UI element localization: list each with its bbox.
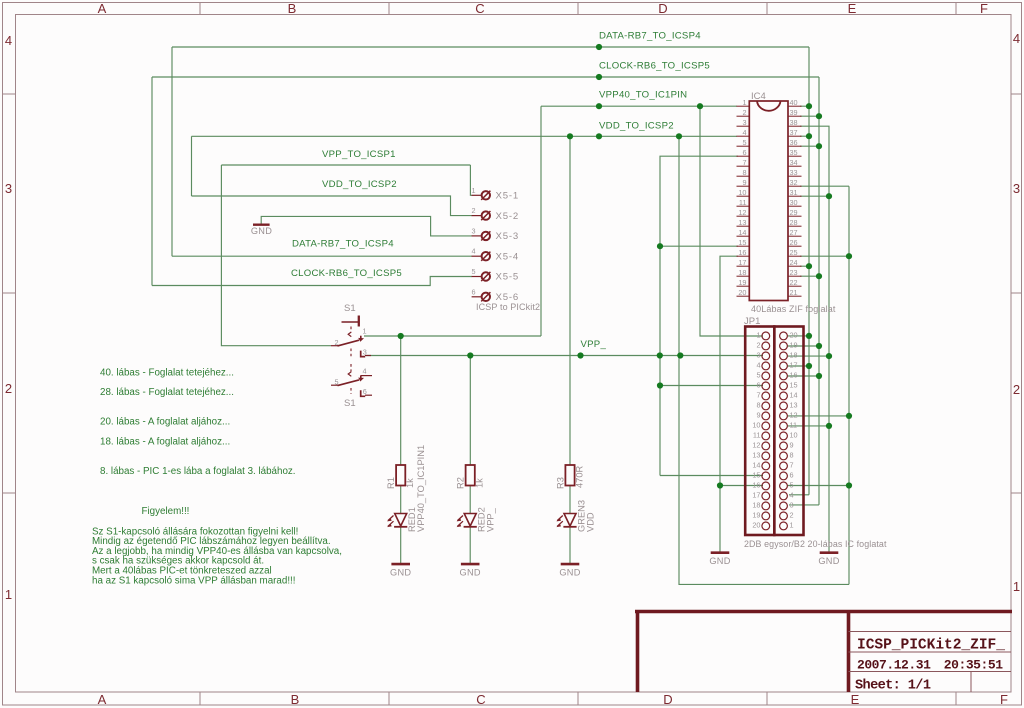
svg-text:3: 3 [742,118,746,127]
svg-text:7: 7 [756,390,760,399]
switch S1 pole1 pin1 tick [360,336,362,340]
svg-text:470R: 470R [575,465,585,488]
wire JP1 pin11 to v829 [787,425,829,427]
svg-text:14: 14 [790,390,798,399]
svg-text:2: 2 [742,108,746,117]
wire IC4 pin32 to v849 [800,185,849,187]
svg-text:14: 14 [738,228,746,237]
svg-text:23: 23 [790,268,798,277]
ground [461,563,480,566]
ground near X5-3 [253,223,270,225]
svg-text:3: 3 [5,181,12,196]
svg-text:7: 7 [742,158,746,167]
wire JP1 pin5 to v849 [787,485,849,487]
svg-text:Sheet: 1/1: Sheet: 1/1 [855,679,931,694]
svg-text:7: 7 [790,460,794,469]
svg-text:4: 4 [471,247,475,256]
svg-text:2: 2 [334,338,338,347]
svg-text:14: 14 [752,460,760,469]
svg-text:17: 17 [738,258,746,267]
pad X5-3 [472,235,481,237]
svg-text:10: 10 [752,420,760,429]
svg-text:35: 35 [790,148,798,157]
svg-text:15: 15 [790,380,798,389]
svg-text:JP1: JP1 [744,316,760,327]
svg-text:40. lábas - Foglalat tetejéhez: 40. lábas - Foglalat tetejéhez... [100,368,234,379]
svg-text:E: E [851,692,860,707]
svg-text:GND: GND [251,226,272,236]
svg-text:18: 18 [752,500,760,509]
svg-text:3: 3 [471,226,475,235]
wire JP1 pin20 stub to v809 [787,335,809,337]
switch S1 coupler chevron pole2 [348,372,351,377]
wire DATA-RB7 right vertical (to IC4 p40/p37/p24, JP1 p20/p17/p4) [808,47,810,495]
svg-text:10: 10 [790,430,798,439]
pad X5-6 [472,296,481,298]
wire CLOCK right vertical (to IC4 p39/p36/p23, JP1 p19/p16/p3) [818,77,820,505]
svg-text:6: 6 [471,287,475,296]
pad X5-4 [472,255,481,257]
svg-text:C: C [476,692,485,707]
LED GREN3 [564,514,576,527]
wire IC4 pin6 corner [660,156,738,475]
svg-text:VPP40_TO_IC1PIN1: VPP40_TO_IC1PIN1 [416,445,426,532]
switch S1 pole1 pin2 stub [331,345,339,347]
svg-text:12: 12 [790,410,798,419]
ground [820,551,839,554]
svg-text:5: 5 [334,378,338,387]
svg-text:34: 34 [790,158,798,167]
switch S1 coupler chevron pole1 [348,332,351,337]
wire net VPP_TO_ICSP1 run [221,164,470,166]
svg-text:4: 4 [5,33,12,48]
svg-text:1: 1 [756,330,760,339]
svg-text:18: 18 [738,268,746,277]
svg-text:15: 15 [738,238,746,247]
wire R1 to LED1 to GND [400,486,402,513]
wire R2 to LED2 to GND [469,486,471,513]
wire IC4 pin40 stub to v809 [800,105,809,107]
wire CLOCK left vertical [151,77,153,286]
svg-text:GND: GND [709,556,730,566]
svg-text:6: 6 [742,148,746,157]
JP1 right column pin circles and numbers 20-1 [780,332,788,340]
svg-text:S1: S1 [344,303,356,314]
svg-text:8. lábas - PIC 1-es lába a fog: 8. lábas - PIC 1-es lába a foglalat 3. l… [100,466,296,477]
svg-text:CLOCK-RB6_TO_ICSP5: CLOCK-RB6_TO_ICSP5 [291,268,402,279]
svg-text:16: 16 [738,248,746,257]
svg-text:C: C [475,1,484,16]
wire JP1 pin18 to v829 [787,355,829,357]
svg-text:IC4: IC4 [751,91,766,102]
title block field lines [849,631,1012,633]
svg-text:2: 2 [790,510,794,519]
svg-text:40Lábas ZIF foglalat: 40Lábas ZIF foglalat [751,304,836,314]
svg-text:VPP_: VPP_ [486,507,496,532]
resistor R2 [466,465,475,486]
switch S1 coupler dashes pole2 upper [350,364,352,372]
switch S1 pole1 contact3 [361,351,366,357]
svg-text:16: 16 [790,370,798,379]
wire IC4 pin37 stub to v809 [800,135,809,137]
wire net CLOCK-RB6_TO_ICSP5 top run [152,76,819,78]
svg-text:31: 31 [790,188,798,197]
svg-text:F: F [1000,692,1008,707]
svg-text:ha az S1 kapcsoló sima VPP áll: ha az S1 kapcsoló sima VPP állásban mara… [92,575,296,586]
svg-text:VPP_: VPP_ [581,339,607,350]
svg-text:36: 36 [790,138,798,147]
svg-text:VDD_TO_ICSP2: VDD_TO_ICSP2 [599,121,674,132]
wire VDD left vertical [191,136,193,196]
svg-text:26: 26 [790,238,798,247]
svg-text:GND: GND [559,568,580,578]
wire DATA-RB7 left vertical to X5-4 [171,47,173,256]
svg-text:20: 20 [790,330,798,339]
svg-text:12: 12 [752,440,760,449]
svg-text:17: 17 [790,360,798,369]
svg-text:E: E [848,1,857,16]
svg-text:5: 5 [756,370,760,379]
svg-text:28. lábas - Foglalat tetejéhez: 28. lábas - Foglalat tetejéhez... [100,387,234,398]
switch S1 pole2 pin5 stub [331,384,339,386]
svg-text:9: 9 [756,410,760,419]
svg-text:3: 3 [1013,181,1020,196]
wire IC4 pin24 stub to v809 [800,265,809,267]
svg-text:1: 1 [471,186,475,195]
frame row ticks right [1011,93,1022,95]
svg-text:8: 8 [742,168,746,177]
wire VPP40 branch to R1 [400,336,402,465]
wire CLOCK to X5-5 [152,277,472,286]
svg-text:5: 5 [742,138,746,147]
svg-text:2: 2 [1013,382,1020,397]
resistor R3 [565,465,574,486]
wire VPP1 left vertical to S1 pin2 [221,165,331,346]
svg-text:1: 1 [363,327,367,336]
svg-text:4: 4 [790,490,794,499]
LED RED2 [464,514,476,527]
svg-text:13: 13 [738,218,746,227]
wire JP1 pin16r stub to v819 [787,375,819,377]
wire VDD to X5-2 [192,196,473,216]
svg-text:21: 21 [790,288,798,297]
wire JP1 pin12 to v849 [787,415,849,417]
svg-text:1k: 1k [475,478,485,488]
svg-text:B: B [291,692,300,707]
ground [561,563,580,566]
svg-text:GND: GND [460,568,481,578]
svg-text:11: 11 [790,420,798,429]
wire IC4 pin31 stub to v829 [800,195,829,197]
svg-text:1: 1 [5,587,12,602]
svg-text:D: D [658,1,667,16]
svg-text:10: 10 [738,188,746,197]
svg-text:19: 19 [752,510,760,519]
svg-text:20: 20 [738,288,746,297]
svg-text:5: 5 [790,480,794,489]
title block heavy outline [635,610,1012,614]
svg-text:X5-5: X5-5 [496,272,519,283]
frame column ticks bottom [199,692,201,705]
svg-text:3: 3 [790,500,794,509]
wire VPP1 to X5-1 [470,165,472,195]
svg-text:VDD_TO_ICSP2: VDD_TO_ICSP2 [322,179,397,190]
svg-text:R2: R2 [456,477,466,489]
wire IC4 pin39 stub to v819 [800,115,819,117]
switch S1 coupler dashes mid [350,349,352,357]
svg-text:2: 2 [471,206,475,215]
svg-text:1: 1 [790,520,794,529]
wire IC4 pin15 run [660,245,738,247]
svg-text:A: A [98,1,107,16]
wire JP1 pin16 stub [720,485,763,487]
svg-text:22: 22 [790,278,798,287]
wire IC4 pin38 corner down to GND under JP1 [800,126,829,553]
svg-text:13: 13 [752,450,760,459]
switch S1 coupler dashes upper [350,327,352,333]
svg-text:VPP40_TO_IC1PIN: VPP40_TO_IC1PIN [599,90,687,101]
svg-text:DATA-RB7_TO_ICSP4: DATA-RB7_TO_ICSP4 [292,239,394,250]
svg-text:GND: GND [818,556,839,566]
junction dots [596,44,602,50]
wire JP1 pin17 stub to v809 [787,365,809,367]
wire IC4 pin16 to JP1 pin16 and GND [720,256,738,553]
svg-text:2: 2 [5,381,12,396]
wire VPP_ vertical to R2 [469,356,471,466]
svg-text:DATA-RB7_TO_ICSP4: DATA-RB7_TO_ICSP4 [599,31,701,42]
svg-text:6: 6 [790,470,794,479]
svg-text:39: 39 [790,108,798,117]
switch S1 actuator bar [342,321,359,323]
wire net VDD_TO_ICSP2 run to IC4 pin4 [192,135,738,137]
ground [711,551,730,554]
wire VPP40 left vertical down to S1 [540,106,542,336]
svg-text:1: 1 [1013,579,1020,594]
svg-text:18: 18 [790,350,798,359]
svg-text:40: 40 [790,98,798,107]
switch S1 pole1 contact3 stub [365,355,371,357]
svg-text:ICSP_PICKit2_ZIF_: ICSP_PICKit2_ZIF_ [857,638,1005,654]
wire IC4 pin25 stub to v849 [800,255,849,257]
svg-text:37: 37 [790,128,798,137]
svg-text:A: A [98,692,107,707]
svg-text:B: B [288,1,297,16]
svg-text:15: 15 [752,470,760,479]
svg-text:CLOCK-RB6_TO_ICSP5: CLOCK-RB6_TO_ICSP5 [599,61,710,72]
svg-text:33: 33 [790,168,798,177]
IC4 notch [757,101,781,111]
op IC4 body (40Labas ZIF socket) [749,101,788,301]
pad X5-5 [472,276,481,278]
svg-text:18. lábas - A foglalat aljához: 18. lábas - A foglalat aljához... [100,436,230,447]
svg-text:24: 24 [790,258,798,267]
wire VPP40 vertical to JP1 pin1 [700,106,763,336]
svg-text:2007.12.31 20:35:51: 2007.12.31 20:35:51 [857,658,1003,673]
svg-text:X5-2: X5-2 [496,211,519,222]
svg-text:32: 32 [790,178,798,187]
wire R3 to LED3 to GND [569,486,571,513]
svg-text:6: 6 [756,380,760,389]
wire into JP1 pin3 [789,504,819,506]
switch S1 pole2 blade [338,380,360,386]
svg-text:X5-3: X5-3 [496,231,519,242]
wire S1 pin1 to VPP40 [364,335,541,337]
svg-text:11: 11 [753,430,761,439]
wire net DATA-RB7_TO_ICSP4 top run [172,46,809,48]
connector JP1 left box [745,327,774,536]
svg-text:38: 38 [790,118,798,127]
svg-text:20: 20 [752,520,760,529]
svg-text:3: 3 [756,350,760,359]
svg-text:8: 8 [756,400,760,409]
svg-text:1: 1 [742,98,746,107]
svg-text:20. lábas - A foglalat aljához: 20. lábas - A foglalat aljához... [100,417,230,428]
svg-text:GND: GND [390,568,411,578]
connector JP1 right box [774,327,803,536]
switch S1 pole2 contact6 [361,390,366,396]
svg-text:25: 25 [790,248,798,257]
svg-text:29: 29 [790,208,798,217]
svg-text:9: 9 [790,440,794,449]
wire net VPP40_TO_IC1PIN run to IC4 pin1 [541,105,737,107]
switch S1 pole1 blade [338,340,360,346]
svg-text:4: 4 [363,366,367,375]
wire IC4 pin23 stub to v819 [800,275,819,277]
svg-text:X5-4: X5-4 [496,251,519,262]
svg-text:R1: R1 [386,477,396,489]
svg-text:13: 13 [790,400,798,409]
svg-text:R3: R3 [556,477,566,489]
switch S1 coupler dashes pole2 lower [350,388,352,394]
resistor R1 [396,465,405,486]
svg-text:5: 5 [471,267,475,276]
svg-text:4: 4 [1013,31,1020,46]
svg-text:30: 30 [790,198,798,207]
svg-text:2DB egysor/B2 20-lábas IC fogl: 2DB egysor/B2 20-lábas IC foglatat [744,539,887,549]
LED RED1 [395,514,407,527]
IC4 pins left 1-20 [737,105,750,107]
wire IC4 pin36 stub to v819 [800,145,819,147]
ground [391,563,410,566]
IC4 pins right 40-21 [788,105,802,107]
svg-text:19: 19 [738,278,746,287]
wire into JP1 pin4 [789,494,809,496]
switch S1 pole2 pin4 tick and stub [360,375,362,379]
JP1 left column pin circles and numbers 1-20 [762,332,770,340]
svg-text:D: D [663,692,672,707]
wire DATA-RB7 to X5-4 [172,255,472,257]
svg-text:VDD: VDD [586,512,596,532]
svg-text:2: 2 [756,340,760,349]
wire v849 vertical (IC p32/p25, JP1 p12/p5) [848,186,850,584]
wire JP1 pin15 from v660 [660,475,763,477]
svg-text:VPP_TO_ICSP1: VPP_TO_ICSP1 [322,149,396,160]
wire JP1 pin19 stub to v819 [787,345,819,347]
svg-text:17: 17 [752,490,760,499]
svg-text:1k: 1k [405,478,415,488]
pad X5-2 [472,215,481,217]
frame column ticks top [199,3,201,15]
svg-text:X5-1: X5-1 [496,191,519,202]
svg-text:4: 4 [756,360,760,369]
svg-text:S1: S1 [344,398,356,409]
svg-text:F: F [980,1,988,16]
pad X5-1 [472,194,481,196]
svg-text:8: 8 [790,450,794,459]
frame row ticks left [3,93,16,95]
wire net VPP_ main run to JP1 pin3 [366,355,763,357]
svg-text:16: 16 [752,480,760,489]
svg-text:27: 27 [790,228,798,237]
wire GND near X5-3 [261,216,472,236]
svg-text:9: 9 [742,178,746,187]
svg-text:19: 19 [790,340,798,349]
svg-text:11: 11 [739,198,747,207]
svg-text:ICSP to PICkit2: ICSP to PICkit2 [476,302,540,312]
wire JP1 pin6 from v660 [660,385,763,387]
svg-text:Figyelem!!!: Figyelem!!! [142,506,190,517]
wire VDD branch to R3 [569,136,571,465]
svg-text:4: 4 [742,128,746,137]
wire VDD vertical via 679 to bottom run [679,136,849,584]
svg-text:28: 28 [790,218,798,227]
svg-text:12: 12 [738,208,746,217]
